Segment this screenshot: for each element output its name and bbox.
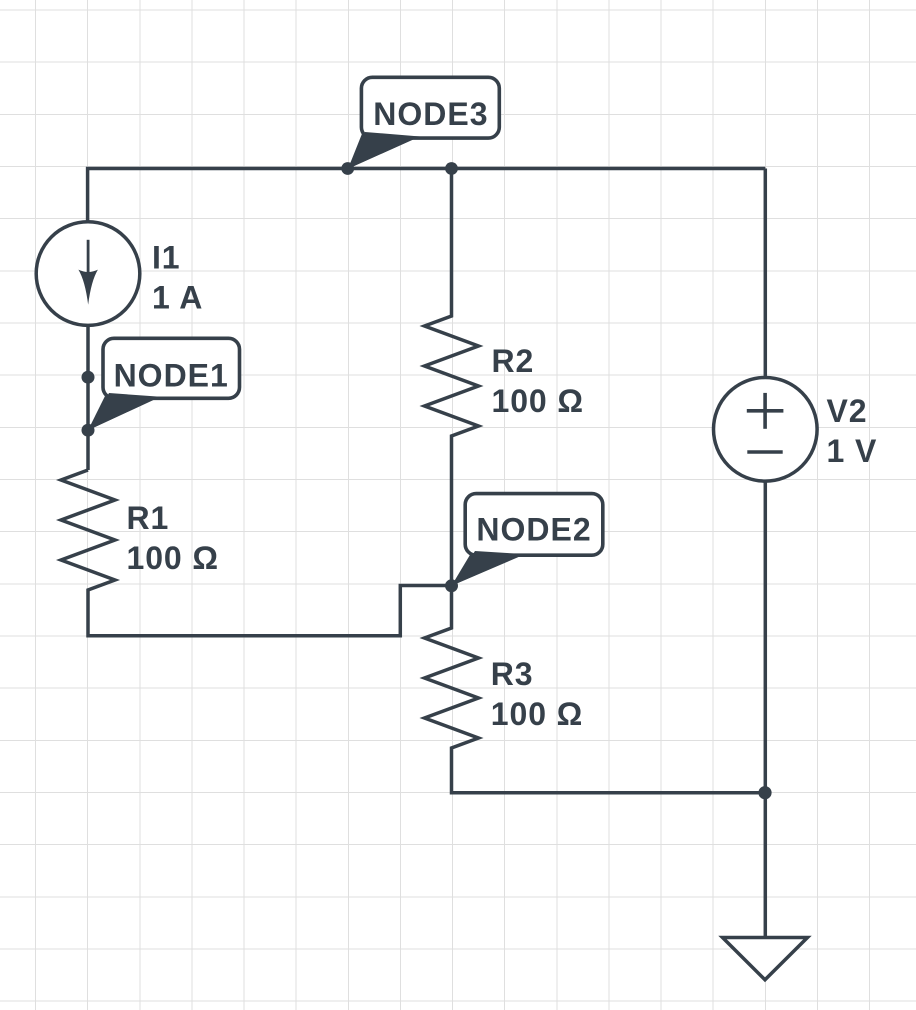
svg-text:R1: R1 [127,500,170,536]
svg-text:100 Ω: 100 Ω [491,696,583,732]
svg-text:100 Ω: 100 Ω [492,383,584,419]
svg-text:I1: I1 [152,240,181,276]
svg-text:NODE2: NODE2 [476,511,591,547]
svg-text:1 A: 1 A [152,280,203,316]
svg-text:V2: V2 [827,393,868,429]
svg-text:100 Ω: 100 Ω [127,540,219,576]
svg-text:NODE3: NODE3 [373,96,488,132]
svg-text:1 V: 1 V [827,433,878,469]
svg-text:NODE1: NODE1 [114,357,229,393]
svg-text:R2: R2 [492,343,535,379]
svg-text:R3: R3 [491,656,534,692]
